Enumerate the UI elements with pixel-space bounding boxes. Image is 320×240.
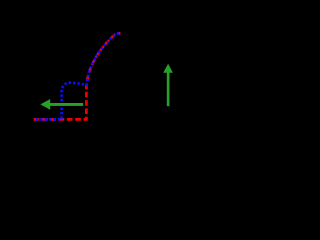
red dashed sharp-transition curve bbox=[34, 33, 121, 119]
green left arrow shaft bbox=[49, 103, 83, 106]
chart canvas bbox=[0, 0, 204, 191]
green up arrowhead bbox=[163, 64, 173, 73]
green left arrowhead bbox=[40, 99, 50, 110]
green up arrow shaft bbox=[167, 72, 170, 107]
blue dotted broadened-transition curve bbox=[34, 33, 121, 119]
